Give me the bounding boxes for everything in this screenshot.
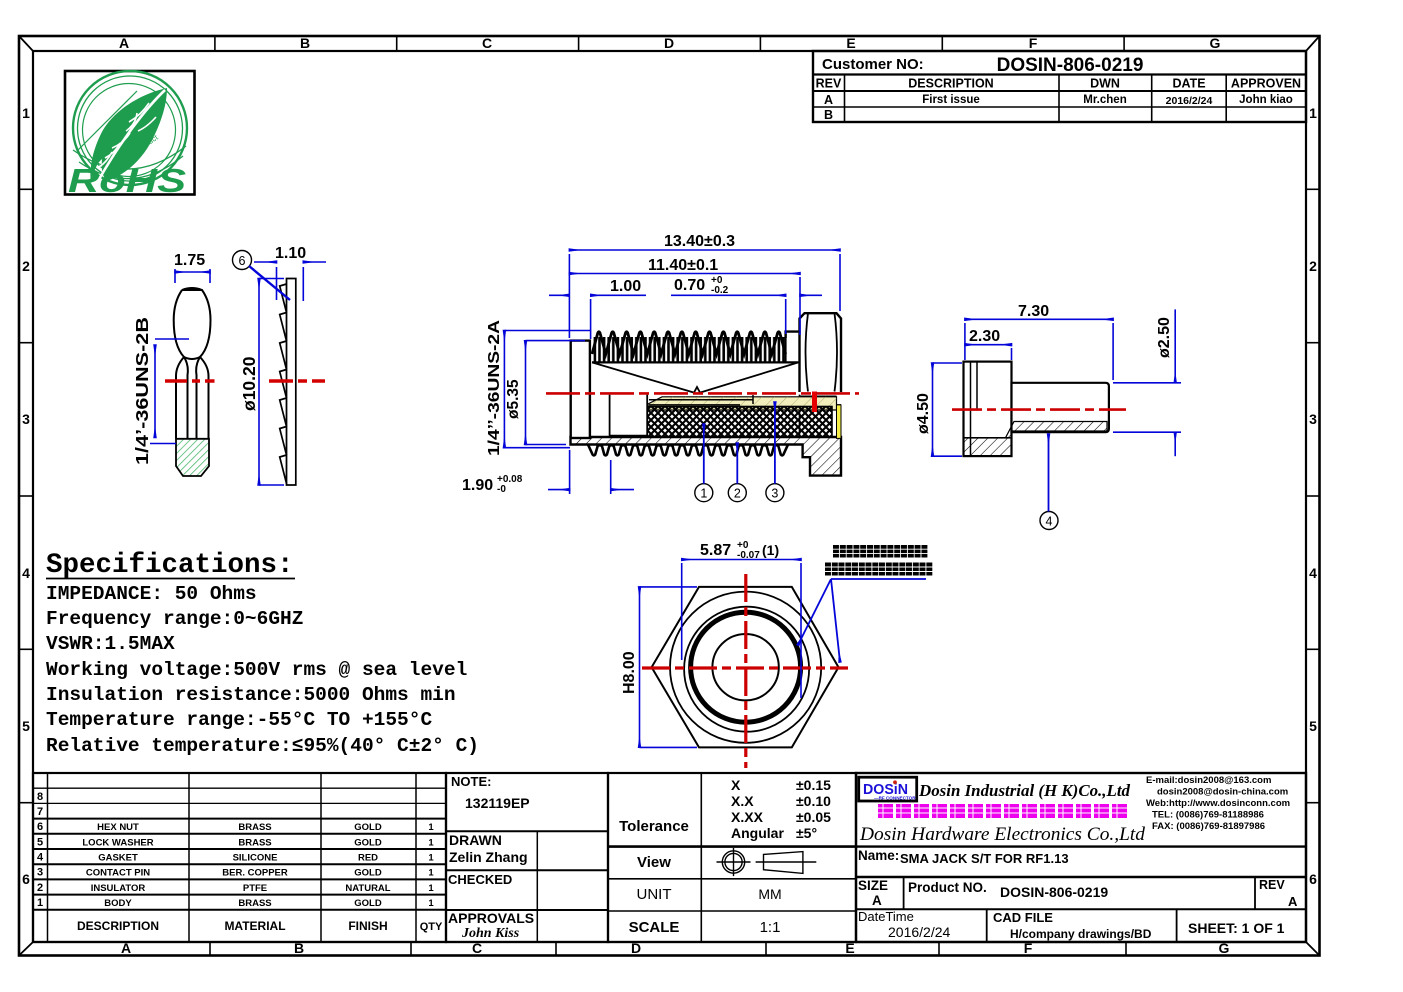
callout 4 xyxy=(1040,512,1058,530)
svg-text:GOLD: GOLD xyxy=(354,898,382,909)
svg-text:2: 2 xyxy=(1309,258,1317,274)
grid letters top xyxy=(119,35,1221,51)
svg-text:1: 1 xyxy=(428,822,434,833)
contact pin (yellow) in section xyxy=(648,397,837,410)
svg-text:2.30: 2.30 xyxy=(969,328,1000,345)
svg-text:13.40±0.3: 13.40±0.3 xyxy=(664,233,735,250)
BOM numbers column xyxy=(37,791,44,909)
svg-text:REV: REV xyxy=(1259,878,1285,892)
bore step (white, left) xyxy=(610,395,648,436)
svg-text:5: 5 xyxy=(37,837,43,849)
svg-text:RED: RED xyxy=(358,853,378,864)
svg-text:B: B xyxy=(300,35,310,51)
svg-text:Dosin Hardware Electronics Co.: Dosin Hardware Electronics Co.,Ltd xyxy=(859,824,1146,845)
yellow contact hatch overlay xyxy=(648,397,837,410)
mounting flange (left) xyxy=(571,341,590,438)
svg-text:7: 7 xyxy=(37,806,43,818)
svg-text:±0.05: ±0.05 xyxy=(796,809,831,825)
svg-text:1/4’’-36UNS-2A: 1/4’’-36UNS-2A xyxy=(486,320,503,456)
grid letters bottom xyxy=(121,940,1230,956)
svg-text:1: 1 xyxy=(37,897,43,909)
svg-text:1.10: 1.10 xyxy=(275,245,306,262)
svg-text:CHECKED: CHECKED xyxy=(448,872,512,887)
svg-text:5.87: 5.87 xyxy=(700,542,731,559)
svg-text:FAX: (0086)769-81897986: FAX: (0086)769-81897986 xyxy=(1152,821,1265,832)
svg-text:BER. COPPER: BER. COPPER xyxy=(222,868,288,879)
contact info block xyxy=(1146,775,1290,832)
RoHS logo xyxy=(65,71,195,199)
leaf xyxy=(90,88,167,184)
svg-text:132119EP: 132119EP xyxy=(465,795,530,811)
thread callout 1/4-36UNS-2A xyxy=(504,331,590,448)
svg-text:DRAWN: DRAWN xyxy=(449,832,502,848)
svg-text:Insulation resistance:5000 Ohm: Insulation resistance:5000 Ohms min xyxy=(46,684,456,706)
svg-text:Name:: Name: xyxy=(858,848,899,863)
svg-text:BODY: BODY xyxy=(104,898,132,909)
dim 1.10 xyxy=(254,262,326,301)
svg-text:DESCRIPTION: DESCRIPTION xyxy=(908,77,993,91)
svg-text:2: 2 xyxy=(37,882,43,894)
dim 7.30 xyxy=(965,319,1113,380)
svg-text:1.90: 1.90 xyxy=(462,477,493,494)
svg-text:GOLD: GOLD xyxy=(354,838,382,849)
frame grid ticks left xyxy=(19,189,33,802)
svg-text:Specifications:: Specifications: xyxy=(46,550,294,581)
title block right: company area xyxy=(856,773,1306,942)
svg-text:6: 6 xyxy=(37,821,43,833)
svg-text:View: View xyxy=(637,854,671,871)
grid numbers right xyxy=(1309,105,1317,887)
svg-text:John Kiss: John Kiss xyxy=(461,926,520,941)
outer circle xyxy=(670,592,821,743)
dim 11.40±0.1 xyxy=(569,274,800,336)
main centerline (red) xyxy=(546,392,859,395)
pin centerline red xyxy=(952,408,1126,411)
svg-text:1: 1 xyxy=(428,883,434,894)
svg-text:6: 6 xyxy=(239,254,246,268)
body external thread profile xyxy=(588,445,788,456)
DOSiN logo box xyxy=(859,777,917,801)
svg-text:—RF CONNECTOR: —RF CONNECTOR xyxy=(874,795,916,800)
frame grid ticks right xyxy=(1306,189,1320,802)
svg-text:3: 3 xyxy=(1309,411,1317,427)
svg-text:1: 1 xyxy=(700,487,707,501)
dim 2.30 xyxy=(965,345,1012,360)
top external thread band xyxy=(592,337,786,362)
svg-text:F: F xyxy=(1029,35,1038,51)
contact exit strip (yellow, right) xyxy=(837,405,842,439)
svg-text:NATURAL: NATURAL xyxy=(345,883,390,894)
hex nut side view (right) xyxy=(800,313,842,392)
hexagon xyxy=(652,587,839,748)
svg-text:(1): (1) xyxy=(762,542,779,558)
svg-text:H8.00: H8.00 xyxy=(621,651,638,694)
svg-text:MM: MM xyxy=(758,886,781,902)
svg-text:Working voltage:500V rms @ sea: Working voltage:500V rms @ sea level xyxy=(46,659,467,681)
svg-text:GOLD: GOLD xyxy=(354,822,382,833)
dim 5.87 xyxy=(682,560,801,699)
svg-text:2016/2/24: 2016/2/24 xyxy=(1166,95,1213,107)
svg-text:SHEET: 1 OF 1: SHEET: 1 OF 1 xyxy=(1188,920,1285,936)
svg-text:BRASS: BRASS xyxy=(238,822,271,833)
svg-text:±0.10: ±0.10 xyxy=(796,793,831,809)
svg-text:BRASS: BRASS xyxy=(238,898,271,909)
dim dia 2.50 xyxy=(1113,309,1181,456)
svg-text:Temperature range:-55°C TO +15: Temperature range:-55°C TO +155°C xyxy=(46,709,432,731)
svg-text:6: 6 xyxy=(1309,871,1317,887)
svg-text:1: 1 xyxy=(428,868,434,879)
svg-text:2016/2/24: 2016/2/24 xyxy=(888,924,950,940)
svg-text:-0.2: -0.2 xyxy=(711,285,729,296)
BOM table lines xyxy=(33,773,446,942)
svg-text:DOSIN-806-0219: DOSIN-806-0219 xyxy=(1000,884,1108,900)
hex crosshair red xyxy=(642,666,848,669)
svg-text:4: 4 xyxy=(1046,515,1053,529)
svg-text:SMA JACK S/T FOR RF1.13: SMA JACK S/T FOR RF1.13 xyxy=(900,851,1069,866)
svg-text:5: 5 xyxy=(22,718,30,734)
svg-text:VSWR:1.5MAX: VSWR:1.5MAX xyxy=(46,633,175,655)
dim dia 4.50 xyxy=(933,363,963,456)
svg-text:1: 1 xyxy=(428,838,434,849)
callout 1 xyxy=(695,484,713,502)
svg-text:3: 3 xyxy=(37,867,43,879)
nut seat below centerline xyxy=(800,395,842,437)
svg-text:Customer NO:: Customer NO: xyxy=(822,56,924,73)
svg-text:HEX NUT: HEX NUT xyxy=(97,822,139,833)
svg-text:-0.07: -0.07 xyxy=(737,550,760,561)
callout 6 leader xyxy=(249,266,290,300)
NOTE / DRAWN / CHECKED / APPROVALS block xyxy=(446,773,608,942)
svg-text:SIZE: SIZE xyxy=(858,878,888,893)
svg-text:CAD FILE: CAD FILE xyxy=(993,910,1053,925)
callout 6 circle xyxy=(233,251,252,270)
svg-text:Frequency range:0~6GHZ: Frequency range:0~6GHZ xyxy=(46,608,303,630)
Tolerance / View / UNIT / SCALE block xyxy=(608,773,856,942)
svg-text:APPROVEN: APPROVEN xyxy=(1231,77,1301,91)
svg-text:11.40±0.1: 11.40±0.1 xyxy=(648,257,718,274)
svg-text:±5°: ±5° xyxy=(796,825,817,841)
svg-text:H/company drawings/BD: H/company drawings/BD xyxy=(1010,927,1152,941)
svg-text:X.X: X.X xyxy=(731,793,754,809)
svg-text:3: 3 xyxy=(22,411,30,427)
svg-text:GASKET: GASKET xyxy=(98,853,138,864)
insulator cross-hatched xyxy=(647,407,832,438)
svg-text:1:1: 1:1 xyxy=(760,919,781,936)
svg-text:±0.15: ±0.15 xyxy=(796,777,831,793)
svg-text:A: A xyxy=(824,93,833,107)
grid numbers left xyxy=(22,105,30,887)
svg-text:Tolerance: Tolerance xyxy=(619,818,689,835)
centerline part2 xyxy=(269,379,325,382)
thread callout 1/4-36UNS-2B dim xyxy=(150,339,189,444)
svg-text:2: 2 xyxy=(22,258,30,274)
svg-text:X.XX: X.XX xyxy=(731,809,764,825)
body bottom hatched section xyxy=(571,437,842,476)
dim 1.00 xyxy=(549,295,646,339)
svg-text:ø10.20: ø10.20 xyxy=(239,356,259,411)
svg-text:John kiao: John kiao xyxy=(1239,94,1293,106)
svg-text:RoHS: RoHS xyxy=(68,162,186,199)
callout 3 xyxy=(766,484,784,502)
svg-text:1/4’-36UNS-2B: 1/4’-36UNS-2B xyxy=(132,317,152,465)
svg-text:IMPEDANCE: 50 Ohms: IMPEDANCE: 50 Ohms xyxy=(46,583,257,605)
dim 1.90 +0.08/-0 xyxy=(548,450,634,494)
svg-text:First issue: First issue xyxy=(922,94,980,106)
svg-text:E: E xyxy=(846,35,855,51)
dim dia 10.20 xyxy=(259,279,284,486)
gasket green hatched bottom xyxy=(176,439,209,476)
svg-text:4: 4 xyxy=(22,565,30,581)
thread ring thick xyxy=(691,612,801,722)
svg-text:1.00: 1.00 xyxy=(610,278,641,295)
svg-text:FINISH: FINISH xyxy=(348,919,387,933)
svg-text:1: 1 xyxy=(22,105,30,121)
svg-text:MATERIAL: MATERIAL xyxy=(224,919,285,933)
frame grid ticks top xyxy=(215,36,1124,51)
callout 2 xyxy=(728,484,746,502)
svg-text:B: B xyxy=(824,108,833,122)
svg-text:SCALE: SCALE xyxy=(629,919,680,936)
svg-text:6: 6 xyxy=(22,871,30,887)
red gasket section xyxy=(812,392,817,413)
svg-text:Angular: Angular xyxy=(731,825,784,841)
svg-text:REV: REV xyxy=(816,77,842,91)
revision table texts xyxy=(816,55,1301,122)
svg-text:GOLD: GOLD xyxy=(354,868,382,879)
svg-text:SILICONE: SILICONE xyxy=(233,853,278,864)
svg-text:Mr.chen: Mr.chen xyxy=(1083,94,1126,106)
svg-text:X: X xyxy=(731,777,741,793)
svg-text:APPROVALS: APPROVALS xyxy=(448,910,534,926)
svg-text:Zelin Zhang: Zelin Zhang xyxy=(449,849,528,865)
svg-text:A: A xyxy=(872,893,882,908)
svg-text:ø4.50: ø4.50 xyxy=(915,393,932,434)
frame grid ticks bottom xyxy=(210,942,1126,956)
svg-text:dosin2008@dosin-china.com: dosin2008@dosin-china.com xyxy=(1157,787,1288,798)
svg-text:Relative temperature:≤95%(40°: Relative temperature:≤95%(40° C±2° C) xyxy=(46,735,479,757)
svg-text:INSULATOR: INSULATOR xyxy=(91,883,146,894)
svg-text:LOCK WASHER: LOCK WASHER xyxy=(82,838,153,849)
svg-text:Dosin Industrial (H K)Co.,Ltd: Dosin Industrial (H K)Co.,Ltd xyxy=(918,781,1131,800)
pin hatch stem band xyxy=(1006,422,1108,438)
hex nut outline xyxy=(174,288,211,439)
svg-text:7.30: 7.30 xyxy=(1018,303,1049,320)
svg-text:D: D xyxy=(664,35,674,51)
svg-text:DWN: DWN xyxy=(1090,77,1120,91)
svg-text:CONTACT PIN: CONTACT PIN xyxy=(86,868,150,879)
BOM rows text xyxy=(77,822,443,933)
svg-text:DOSIN-806-0219: DOSIN-806-0219 xyxy=(997,55,1144,76)
pin stem xyxy=(1012,383,1109,432)
pin cap outline xyxy=(964,362,1012,457)
svg-text:3: 3 xyxy=(771,487,778,501)
svg-text:ø2.50: ø2.50 xyxy=(1156,317,1173,358)
bore circle xyxy=(712,634,778,700)
svg-text:1: 1 xyxy=(428,853,434,864)
svg-text:2: 2 xyxy=(734,487,741,501)
dim H8.00 xyxy=(640,587,698,748)
dim 13.40±0.3 xyxy=(569,250,840,338)
pin cap inner lines xyxy=(971,362,978,457)
svg-text:1: 1 xyxy=(1309,105,1317,121)
view projection symbol xyxy=(717,848,817,876)
svg-text:4: 4 xyxy=(1309,565,1317,581)
dim 0.70 +0/-0.2 xyxy=(671,295,822,334)
svg-text:BRASS: BRASS xyxy=(238,838,271,849)
svg-text:0.70: 0.70 xyxy=(674,277,705,294)
svg-text:PTFE: PTFE xyxy=(243,883,267,894)
svg-text:4: 4 xyxy=(37,852,44,864)
svg-text:TEL: (0086)769-81188986: TEL: (0086)769-81188986 xyxy=(1152,810,1264,821)
contact slot lines xyxy=(649,395,753,405)
svg-text:Product NO.: Product NO. xyxy=(908,880,987,895)
chinese annotation (simulated glyph blocks) xyxy=(825,545,932,576)
svg-text:5: 5 xyxy=(1309,718,1317,734)
svg-text:G: G xyxy=(1210,35,1221,51)
svg-text:C: C xyxy=(482,35,492,51)
svg-text:ø5.35: ø5.35 xyxy=(505,379,522,419)
revision table top right xyxy=(813,51,1306,122)
svg-text:DESCRIPTION: DESCRIPTION xyxy=(77,919,159,933)
Specifications lines xyxy=(46,583,479,757)
dim 1.75 xyxy=(175,269,210,283)
svg-text:QTY: QTY xyxy=(420,921,443,933)
svg-text:A: A xyxy=(1288,894,1298,909)
svg-text:Web:http://www.dosinconn.com: Web:http://www.dosinconn.com xyxy=(1146,798,1290,809)
svg-text:1.75: 1.75 xyxy=(174,252,205,269)
pin hatch cap bottom xyxy=(964,438,1012,456)
svg-text:-0: -0 xyxy=(497,484,506,495)
internal taper lines xyxy=(592,362,798,392)
svg-text:UNIT: UNIT xyxy=(637,886,672,903)
svg-text:NOTE:: NOTE: xyxy=(451,774,491,789)
centerline part1 xyxy=(165,379,215,382)
svg-text:DATE: DATE xyxy=(1172,77,1205,91)
washer strip outline xyxy=(280,279,296,486)
company name chinese (magenta) simulated glyph blocks xyxy=(878,804,1127,818)
svg-text:1: 1 xyxy=(428,898,434,909)
svg-text:A: A xyxy=(119,35,129,51)
svg-text:8: 8 xyxy=(37,791,43,803)
chamfer circle xyxy=(684,607,809,732)
annotation leaders (blue) xyxy=(798,579,926,662)
svg-text:E-mail:dosin2008@163.com: E-mail:dosin2008@163.com xyxy=(1146,775,1271,786)
dim dia 5.35 xyxy=(526,341,586,445)
thread-end step to nut xyxy=(786,332,799,338)
svg-text:DateTime: DateTime xyxy=(858,909,914,924)
